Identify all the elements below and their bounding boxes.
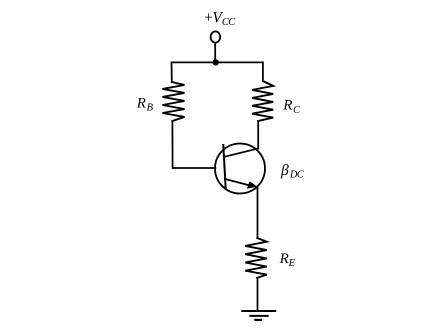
svg-text:C: C — [293, 105, 301, 116]
svg-text:R: R — [136, 96, 146, 112]
svg-text:R: R — [279, 251, 289, 267]
svg-text:CC: CC — [222, 17, 236, 28]
svg-text:E: E — [288, 258, 296, 269]
svg-text:B: B — [147, 102, 154, 113]
svg-text:DC: DC — [289, 169, 305, 180]
svg-text:β: β — [280, 162, 289, 179]
svg-text:R: R — [282, 97, 292, 113]
